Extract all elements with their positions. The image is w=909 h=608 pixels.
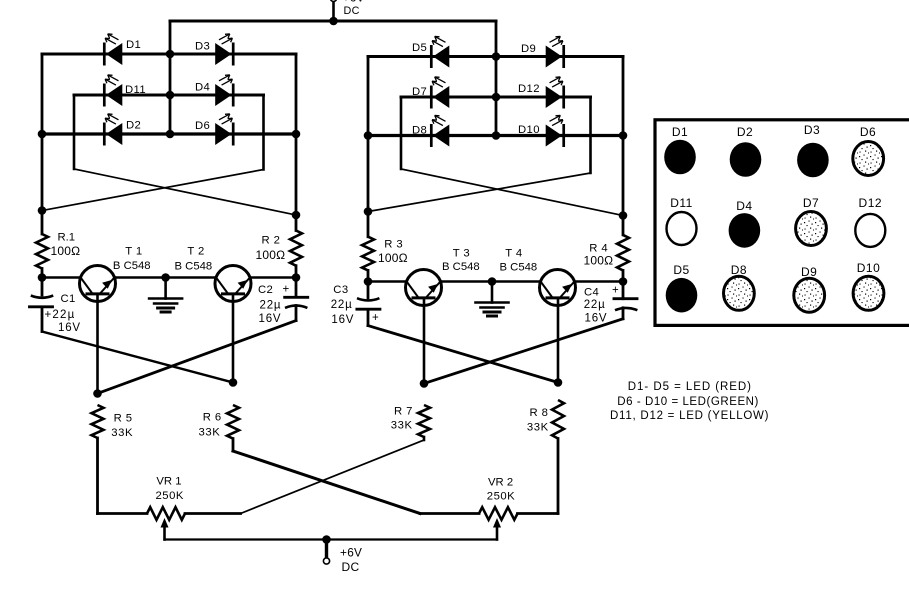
svg-text:16V: 16V <box>58 322 81 334</box>
svg-text:D6: D6 <box>860 125 876 139</box>
svg-text:100Ω: 100Ω <box>51 244 81 258</box>
svg-text:D11: D11 <box>125 84 146 96</box>
svg-text:+6V: +6V <box>340 546 362 560</box>
svg-text:+: + <box>612 285 619 297</box>
svg-text:100Ω: 100Ω <box>378 251 408 265</box>
svg-text:R 6: R 6 <box>203 411 222 423</box>
svg-text:VR 2: VR 2 <box>488 477 513 489</box>
svg-text:D1- D5 = LED (RED): D1- D5 = LED (RED) <box>628 381 752 393</box>
svg-text:22µ: 22µ <box>584 299 606 311</box>
svg-text:R 7: R 7 <box>394 405 413 417</box>
svg-text:33K: 33K <box>527 422 549 434</box>
svg-text:33K: 33K <box>391 420 413 432</box>
svg-text:B C548: B C548 <box>113 260 151 272</box>
svg-text:C2: C2 <box>258 284 273 296</box>
svg-text:250K: 250K <box>156 490 184 502</box>
svg-text:T 1: T 1 <box>125 245 142 257</box>
svg-text:D1: D1 <box>126 39 141 51</box>
svg-text:R 5: R 5 <box>114 412 133 424</box>
svg-text:T 4: T 4 <box>505 247 522 259</box>
svg-text:D7: D7 <box>803 196 819 210</box>
svg-text:D5: D5 <box>412 42 427 54</box>
svg-text:D3: D3 <box>195 41 210 53</box>
svg-text:B C548: B C548 <box>442 261 480 273</box>
svg-text:T 3: T 3 <box>453 247 470 259</box>
svg-text:D12: D12 <box>859 196 883 210</box>
svg-text:100Ω: 100Ω <box>584 254 614 268</box>
svg-text:33K: 33K <box>111 427 133 439</box>
svg-text:33K: 33K <box>199 426 221 438</box>
svg-text:D2: D2 <box>126 120 141 132</box>
svg-text:R 3: R 3 <box>384 238 403 250</box>
svg-text:VR 1: VR 1 <box>156 476 181 488</box>
svg-text:16V: 16V <box>585 313 608 325</box>
svg-text:D10: D10 <box>857 261 881 275</box>
svg-text:16V: 16V <box>331 314 354 326</box>
svg-text:R 8: R 8 <box>530 407 549 419</box>
svg-text:D3: D3 <box>804 123 820 137</box>
svg-text:D9: D9 <box>801 265 817 279</box>
svg-text:D9: D9 <box>521 43 536 55</box>
svg-text:+22µ: +22µ <box>45 309 76 321</box>
svg-text:C4: C4 <box>584 287 599 299</box>
svg-text:R.1: R.1 <box>58 232 76 244</box>
svg-text:D6 - D10 = LED(GREEN): D6 - D10 = LED(GREEN) <box>617 396 759 408</box>
svg-text:D7: D7 <box>412 86 427 98</box>
svg-text:C1: C1 <box>61 293 76 305</box>
svg-text:D12: D12 <box>518 83 540 95</box>
svg-text:D10: D10 <box>518 124 540 136</box>
svg-text:+: + <box>372 312 379 324</box>
svg-text:250K: 250K <box>487 491 515 503</box>
svg-text:D2: D2 <box>737 125 753 139</box>
svg-text:22µ: 22µ <box>260 299 282 311</box>
svg-text:D1: D1 <box>672 125 688 139</box>
svg-text:D6: D6 <box>195 120 210 132</box>
svg-text:16V: 16V <box>259 313 282 325</box>
svg-text:C3: C3 <box>333 284 348 296</box>
svg-text:R 2: R 2 <box>262 235 281 247</box>
svg-text:22µ: 22µ <box>331 299 353 311</box>
svg-text:B C548: B C548 <box>500 262 538 274</box>
svg-text:B C548: B C548 <box>175 260 213 272</box>
svg-text:D4: D4 <box>195 82 210 94</box>
svg-text:D8: D8 <box>412 125 427 137</box>
svg-text:D5: D5 <box>673 263 689 277</box>
svg-text:D8: D8 <box>731 263 747 277</box>
svg-text:D4: D4 <box>736 199 752 213</box>
svg-text:D11: D11 <box>670 196 693 210</box>
svg-text:T 2: T 2 <box>187 245 204 257</box>
svg-text:+: + <box>283 284 290 296</box>
svg-text:DC: DC <box>342 560 360 574</box>
svg-text:100Ω: 100Ω <box>256 248 286 262</box>
svg-text:D11, D12 = LED (YELLOW): D11, D12 = LED (YELLOW) <box>610 410 769 422</box>
svg-text:DC: DC <box>344 5 360 17</box>
